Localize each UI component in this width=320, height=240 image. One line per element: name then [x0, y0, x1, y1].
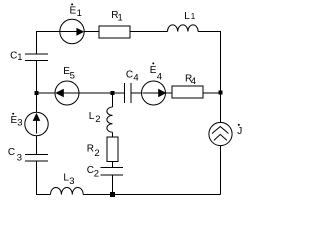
wire C4 to E4	[131, 92, 142, 94]
node A junction dot	[35, 91, 39, 95]
label J	[237, 124, 242, 137]
node B junction dot	[111, 91, 115, 95]
svg-text:C: C	[10, 50, 17, 61]
wire node A to E5	[37, 92, 56, 94]
wire L1 to top-right corner down to node N1	[198, 32, 220, 93]
svg-text:3: 3	[17, 152, 22, 163]
label L1	[184, 11, 196, 22]
wire top-left corner to E1	[37, 32, 60, 54]
wire C3 to bottom-left corner to L3	[37, 161, 51, 195]
label C4	[126, 70, 139, 84]
resistor R4	[172, 86, 203, 98]
wire E1 to R1	[84, 31, 99, 33]
svg-text:C: C	[126, 70, 133, 81]
svg-text:5: 5	[70, 71, 75, 82]
label R2	[87, 144, 100, 160]
label R1	[111, 10, 122, 22]
label R4	[185, 73, 196, 87]
svg-text:1: 1	[17, 52, 22, 62]
label E3	[11, 113, 23, 129]
svg-text:3: 3	[69, 176, 74, 187]
svg-text:R: R	[87, 144, 94, 155]
svg-text:1: 1	[118, 13, 123, 23]
inductor L2	[107, 107, 113, 132]
wire C1 to node A	[36, 61, 38, 113]
svg-text:E: E	[150, 65, 157, 76]
wire R4 to node N1	[203, 92, 221, 94]
label L2	[89, 111, 101, 125]
resistor R2	[107, 137, 118, 162]
capacitor C3	[25, 155, 48, 162]
wire C2 to node C	[112, 175, 114, 195]
svg-text:2: 2	[94, 148, 99, 159]
capacitor C2	[101, 168, 124, 176]
wire L3 to bottom-right corner with node C	[83, 194, 220, 196]
inductor L1	[168, 25, 199, 32]
node C junction dot	[110, 192, 115, 197]
wire E3 to C3	[36, 136, 38, 155]
label E1	[70, 3, 82, 19]
wire R1 to L1	[130, 31, 168, 33]
EMF source E4	[142, 81, 167, 105]
svg-text:1: 1	[77, 8, 82, 19]
capacitor C1	[25, 54, 48, 61]
wire node N1 to current source J	[220, 93, 222, 123]
capacitor C4	[125, 83, 132, 103]
wire node B down to L2	[112, 93, 114, 107]
label C3	[8, 147, 22, 163]
label C1	[10, 50, 22, 61]
node N1 junction dot	[219, 91, 223, 95]
label C2	[87, 165, 99, 180]
wire J to bottom-right corner	[220, 146, 222, 195]
svg-text:L: L	[184, 11, 190, 22]
svg-text:2: 2	[95, 114, 100, 125]
wire L2 to R2	[112, 132, 114, 137]
label E4	[150, 62, 162, 82]
svg-text:L: L	[89, 111, 95, 122]
wire E5 to C4 with node B	[79, 92, 125, 94]
svg-text:2: 2	[94, 168, 99, 179]
current source J	[209, 122, 232, 145]
svg-text:3: 3	[17, 118, 22, 129]
svg-text:4: 4	[191, 76, 196, 87]
svg-text:E: E	[70, 6, 77, 17]
wire R2 to C2	[112, 162, 114, 168]
EMF source E5	[55, 81, 79, 105]
label E5	[63, 66, 75, 82]
svg-text:1: 1	[191, 12, 196, 21]
wire E4 to R4	[166, 92, 173, 94]
EMF source E1	[60, 19, 84, 43]
EMF source E3	[25, 112, 48, 135]
resistor R1	[99, 26, 130, 38]
svg-text:4: 4	[133, 73, 138, 84]
svg-text:C: C	[8, 147, 15, 158]
svg-text:J: J	[237, 126, 242, 137]
svg-text:4: 4	[157, 72, 162, 83]
inductor L3	[51, 187, 84, 194]
label L3	[63, 173, 74, 188]
